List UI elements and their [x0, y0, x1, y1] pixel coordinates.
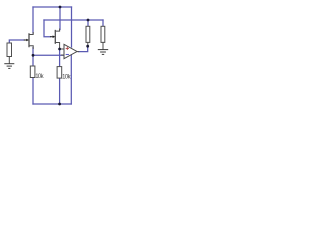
wire mid rail — [44, 19, 103, 21]
wire gate Q1 — [9, 40, 24, 43]
wire inverting input — [33, 54, 64, 56]
wire source Q2 to R2 — [59, 49, 61, 67]
wire source Q1 to R1 — [32, 48, 34, 67]
wire gate Q2 — [44, 20, 51, 37]
gate arrow Q2 — [53, 35, 56, 38]
junction node bottom rail / R2 — [58, 103, 61, 106]
wire drain Q2 — [59, 7, 61, 30]
junction node Q2 source / + input — [58, 48, 61, 51]
wire op-amp V+ — [71, 7, 73, 47]
wire bottom rail — [33, 103, 71, 105]
ground (left) — [5, 64, 14, 69]
wire drain Q1 — [32, 7, 34, 33]
wire R3 top — [87, 20, 89, 26]
resistor RL (left, gate bias) — [7, 43, 12, 64]
wire op-amp V- down — [70, 55, 72, 104]
resistor R3 (feedback) — [86, 26, 90, 46]
op-amp U1 — [60, 44, 79, 58]
background — [0, 0, 120, 113]
ground (right) — [98, 50, 107, 55]
transistor Q2 (JFET) — [51, 29, 60, 49]
junction node top rail / Q2 drain — [59, 6, 62, 9]
wire R4 top — [102, 20, 104, 26]
wire R1 bottom — [32, 78, 34, 105]
junction node mid rail / R3 — [87, 19, 90, 22]
junction node output / R3 — [86, 45, 89, 48]
gate arrow Q1 — [26, 39, 29, 42]
resistor R1 10k — [30, 66, 35, 78]
wire op-amp output — [79, 46, 88, 52]
wire R2 bottom — [59, 78, 61, 104]
transistor Q1 (JFET) — [24, 33, 33, 49]
resistor R4 (to ground) — [101, 26, 105, 49]
junction node Q1 source / - input — [32, 54, 35, 57]
resistor R2 10k — [57, 67, 62, 79]
wire top rail V+ — [33, 6, 72, 8]
